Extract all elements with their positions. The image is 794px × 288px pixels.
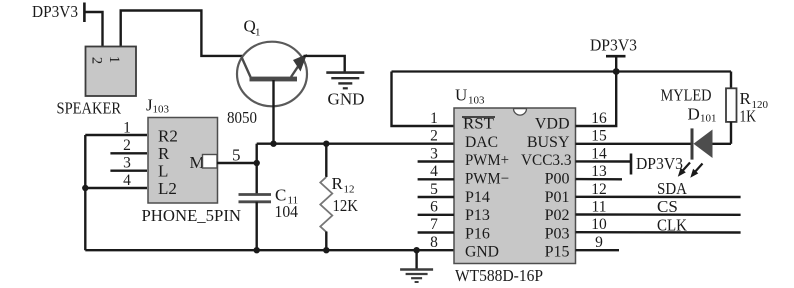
- svg-text:L: L: [158, 162, 168, 181]
- svg-text:8050: 8050: [227, 108, 257, 127]
- wire U103 pin11 CS: [576, 213, 741, 216]
- wire U103 pin16 to rail: [576, 72, 617, 127]
- svg-text:1K: 1K: [740, 107, 757, 126]
- svg-text:2: 2: [123, 137, 131, 154]
- svg-text:RST: RST: [463, 116, 494, 133]
- wire U103 pin1 from top rail: [392, 72, 455, 127]
- svg-text:R2: R2: [158, 127, 178, 146]
- svg-text:SDA: SDA: [657, 179, 688, 198]
- wire U103 pin9 stub: [576, 249, 620, 251]
- wire U103 pin15 to LED: [576, 143, 692, 145]
- wire U103 pin6: [418, 214, 454, 216]
- svg-text:9: 9: [595, 234, 603, 251]
- svg-text:D: D: [688, 105, 700, 124]
- wire J103 pin2: [110, 152, 147, 154]
- ground GND near Q1: [326, 73, 364, 109]
- svg-text:3: 3: [123, 155, 131, 172]
- svg-text:P03: P03: [545, 225, 570, 242]
- junction R12 bottom: [323, 247, 329, 253]
- svg-text:8: 8: [430, 234, 438, 251]
- junction C11 bottom: [254, 247, 260, 253]
- svg-text:12: 12: [344, 184, 355, 196]
- wire J103 pin4: [85, 187, 147, 189]
- wire bottom rail: [85, 249, 454, 251]
- svg-text:L2: L2: [158, 179, 177, 198]
- LED D101 MYLED: [661, 86, 717, 178]
- svg-text:104: 104: [275, 202, 299, 221]
- svg-text:4: 4: [123, 172, 131, 189]
- svg-text:MYLED: MYLED: [661, 86, 712, 105]
- wire left rail: [84, 135, 86, 250]
- svg-text:1: 1: [255, 27, 261, 39]
- svg-text:P16: P16: [465, 225, 490, 242]
- svg-text:R: R: [740, 89, 752, 108]
- svg-text:1: 1: [106, 56, 122, 63]
- resistor R120 1K: [726, 72, 769, 144]
- resistor R12 12K: [320, 144, 358, 251]
- svg-text:101: 101: [700, 113, 717, 125]
- svg-text:BUSY: BUSY: [527, 134, 570, 151]
- svg-text:P15: P15: [545, 244, 570, 261]
- svg-text:2: 2: [430, 128, 438, 145]
- wire DAC node horizontal: [257, 142, 454, 144]
- svg-text:GND: GND: [465, 244, 499, 261]
- wire U103 pin14 to DP3V3: [576, 160, 632, 163]
- svg-text:1: 1: [123, 120, 131, 137]
- svg-text:U: U: [455, 86, 467, 105]
- svg-text:CS: CS: [657, 197, 678, 216]
- svg-text:PWM+: PWM+: [465, 152, 509, 169]
- svg-text:GND: GND: [328, 90, 365, 109]
- junction pin5 node: [254, 160, 260, 166]
- ground bottom: [400, 250, 433, 282]
- wire U103 pin13 stub: [576, 178, 623, 181]
- wire C11 bottom: [256, 202, 258, 250]
- wire U103 pin7: [418, 231, 454, 233]
- svg-text:P00: P00: [545, 171, 570, 188]
- svg-text:1: 1: [430, 110, 438, 127]
- svg-text:WT588D-16P: WT588D-16P: [455, 266, 543, 285]
- wire U103 pin4: [418, 178, 454, 180]
- speaker SPEAKER: [57, 47, 137, 118]
- svg-text:10: 10: [591, 216, 607, 233]
- svg-text:R: R: [158, 144, 170, 163]
- junction rail DP3V3: [613, 68, 620, 75]
- power flag DP3V3 top-left: [32, 2, 84, 22]
- svg-text:CLK: CLK: [657, 216, 688, 235]
- svg-text:DAC: DAC: [465, 134, 498, 151]
- junction GND stub: [413, 247, 419, 253]
- svg-text:5: 5: [232, 146, 241, 165]
- wire Q1 base node vertical: [256, 144, 258, 195]
- wire Q1 emitter to ground: [304, 56, 345, 72]
- svg-text:5: 5: [430, 181, 438, 198]
- junction Q1 base: [270, 141, 276, 147]
- wire top rail: [392, 70, 732, 72]
- capacitor C11 104: [239, 186, 299, 222]
- power flag DP3V3 mid-right: [631, 154, 683, 175]
- svg-text:103: 103: [468, 95, 485, 107]
- svg-text:SPEAKER: SPEAKER: [57, 99, 122, 118]
- transistor Q1 8050: [227, 17, 307, 144]
- svg-text:13: 13: [591, 163, 607, 180]
- wire J103 pin5: [217, 162, 257, 164]
- wire U103 pin10 CLK: [576, 231, 741, 234]
- svg-text:14: 14: [591, 145, 607, 162]
- svg-text:VDD: VDD: [535, 116, 570, 133]
- junction J103 pin4: [82, 185, 88, 191]
- wire U103 pin3: [418, 160, 454, 162]
- svg-text:12K: 12K: [333, 196, 359, 215]
- svg-text:VCC3.3: VCC3.3: [521, 152, 572, 169]
- wire J103 pin3: [110, 169, 147, 171]
- svg-text:103: 103: [153, 104, 170, 116]
- svg-text:3: 3: [430, 145, 438, 162]
- svg-text:16: 16: [591, 110, 607, 127]
- svg-text:P02: P02: [545, 207, 570, 224]
- wire J103 pin1: [85, 134, 147, 136]
- wire U103 pin12 SDA: [576, 196, 741, 199]
- svg-text:15: 15: [591, 128, 607, 145]
- svg-text:P01: P01: [545, 189, 570, 206]
- svg-text:4: 4: [430, 163, 438, 180]
- wire U103 pin5: [418, 196, 454, 198]
- svg-text:DP3V3: DP3V3: [32, 2, 78, 21]
- svg-text:11: 11: [592, 199, 607, 216]
- wire LED anode to R120: [712, 143, 731, 145]
- junction R12 top: [323, 141, 329, 147]
- svg-text:P14: P14: [465, 189, 490, 206]
- svg-text:7: 7: [430, 216, 438, 233]
- svg-text:6: 6: [430, 199, 438, 216]
- svg-text:P13: P13: [465, 207, 490, 224]
- power flag DP3V3 top-right: [590, 36, 637, 72]
- IC U103 WT588D-16P: [454, 86, 576, 286]
- svg-text:R: R: [332, 174, 344, 193]
- svg-text:DP3V3: DP3V3: [636, 154, 683, 173]
- wire speaker pin2 to DP3V3: [84, 12, 102, 46]
- wire speaker pin1 to Q1: [121, 11, 243, 56]
- svg-text:2: 2: [89, 57, 105, 64]
- svg-text:Q: Q: [244, 17, 256, 36]
- svg-text:12: 12: [591, 181, 607, 198]
- svg-text:DP3V3: DP3V3: [590, 36, 637, 55]
- svg-text:PHONE_5PIN: PHONE_5PIN: [142, 206, 242, 225]
- svg-text:PWM−: PWM−: [465, 171, 509, 188]
- connector J103 PHONE_5PIN: [142, 96, 242, 226]
